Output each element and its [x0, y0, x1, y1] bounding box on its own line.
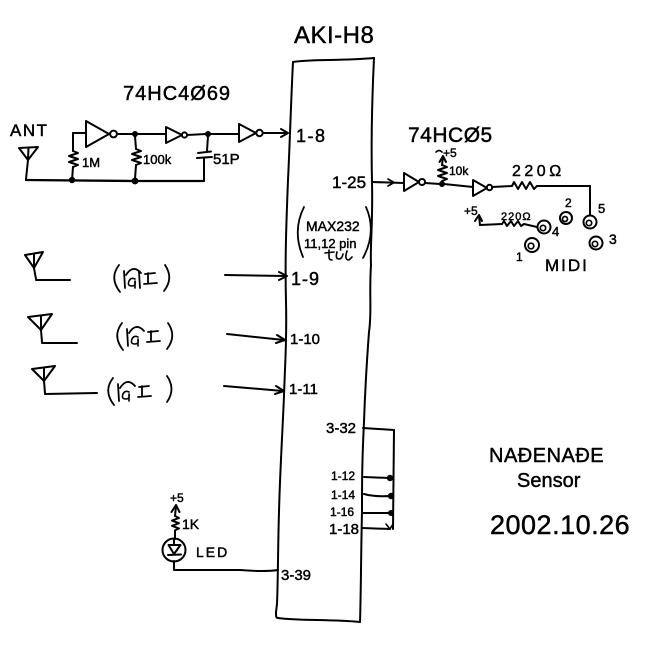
note ditto 2: [117, 323, 172, 350]
power arrow +5 led: [172, 505, 180, 516]
svg-text:1-16: 1-16: [330, 505, 354, 519]
svg-text:+5: +5: [443, 146, 457, 160]
wire inverter3 to pin 1-8: [263, 129, 288, 137]
junction dot 1-12: [387, 475, 393, 481]
resistor R2 100k: [132, 136, 141, 179]
inverter U2A: [404, 173, 425, 191]
svg-text:2002.10.26: 2002.10.26: [490, 510, 630, 540]
antenna A4: [32, 366, 97, 394]
junction node B: [205, 131, 211, 137]
resistor R6 1K: [172, 516, 179, 539]
junction dot 1-14: [388, 493, 394, 499]
MIDI jack pin 5: [584, 216, 597, 229]
svg-text:51P: 51P: [213, 151, 240, 168]
svg-text:1-12: 1-12: [331, 469, 355, 483]
wire to inverter3: [210, 133, 239, 135]
note ditto 1: [114, 265, 169, 292]
microcontroller U-AKI-H8 body: [276, 58, 374, 622]
svg-text:100k: 100k: [143, 152, 172, 167]
wire to MIDI pin 5: [589, 186, 591, 215]
wire inverter2 output: [187, 134, 206, 135]
label +5 pullup: [436, 146, 457, 160]
inverter U1C: [239, 124, 263, 142]
LED D1: [163, 539, 186, 562]
wire stub 1-14: [364, 494, 390, 496]
wire pin 1-25 to inverter4: [372, 179, 404, 186]
svg-text:LED: LED: [196, 544, 229, 560]
wire LED to 3-39: [174, 561, 278, 571]
svg-text:10k: 10k: [449, 164, 469, 178]
wire arrow to 1-9: [225, 272, 287, 280]
svg-text:74HCØ5: 74HCØ5: [408, 124, 493, 147]
svg-text:1-18: 1-18: [329, 521, 359, 538]
junction rail dot 2: [132, 178, 139, 185]
svg-text:11,12 pin: 11,12 pin: [304, 236, 357, 251]
junction dot 1-16: [388, 510, 394, 516]
svg-text:4: 4: [552, 224, 559, 239]
svg-text:1-11: 1-11: [289, 381, 318, 398]
svg-text:Sensor: Sensor: [517, 470, 581, 492]
svg-text:220Ω: 220Ω: [512, 163, 565, 180]
svg-text:3-39: 3-39: [281, 567, 311, 584]
inverter U1B: [166, 127, 187, 143]
svg-text:1-9: 1-9: [291, 269, 320, 289]
svg-text:1: 1: [516, 250, 523, 264]
svg-text:+5: +5: [170, 491, 184, 505]
power arrow +5 midi: [475, 215, 482, 225]
svg-text:AKI-H8: AKI-H8: [294, 22, 374, 49]
wire 3-32 to bus: [363, 428, 394, 430]
MIDI jack pin 1: [525, 238, 539, 252]
svg-text:1-10: 1-10: [290, 331, 320, 348]
svg-text:ANT: ANT: [10, 121, 49, 140]
antenna A2: [25, 252, 70, 280]
inverter U1A: [86, 121, 117, 147]
resistor R4 220 ohm: [492, 182, 590, 189]
svg-text:MAX232: MAX232: [306, 218, 360, 234]
wire to inverter5: [444, 184, 473, 187]
svg-text:3: 3: [609, 231, 617, 247]
svg-text:+5: +5: [464, 204, 478, 218]
svg-text:5: 5: [598, 201, 605, 216]
note ditto 3: [108, 376, 171, 405]
wire stub 1-18: [362, 524, 393, 529]
wire arrow to 1-10: [227, 334, 285, 343]
svg-text:1-8: 1-8: [296, 126, 327, 146]
wire inverter1 input: [73, 132, 86, 134]
junction rail dot 1: [69, 177, 75, 183]
junction node C: [439, 181, 445, 187]
capacitor C1 51P: [197, 136, 212, 180]
svg-text:74HC4Ø69: 74HC4Ø69: [123, 83, 231, 105]
antenna A3: [28, 314, 77, 343]
svg-text:1M: 1M: [82, 155, 100, 170]
wire to inverter2: [137, 133, 166, 135]
wire stub 1-16: [363, 512, 390, 514]
svg-text:220Ω: 220Ω: [501, 211, 532, 223]
svg-text:1K: 1K: [182, 516, 200, 532]
svg-text:1-14: 1-14: [331, 488, 355, 502]
wire inverter1 output: [117, 133, 133, 135]
antenna ANT: [19, 147, 38, 179]
wire stub 1-12: [364, 477, 389, 478]
wire inverter4 output: [425, 183, 440, 184]
svg-text:MIDI: MIDI: [545, 256, 589, 275]
wire arrow to 1-11: [224, 386, 284, 394]
MIDI jack pin 2: [560, 212, 572, 224]
resistor R1 1M: [69, 133, 78, 180]
svg-text:1-25: 1-25: [332, 173, 366, 192]
MIDI jack pin 3: [590, 237, 603, 250]
svg-text:2: 2: [565, 196, 572, 210]
MIDI jack pin 4: [538, 221, 551, 234]
svg-text:3-32: 3-32: [326, 420, 356, 437]
note MAX232 11,12 pin: [298, 207, 371, 260]
inverter U2B: [473, 180, 492, 196]
junction node A: [132, 131, 138, 137]
resistor R3 10k pullup: [438, 156, 447, 181]
svg-text:NAĐENAĐE: NAĐENAĐE: [489, 445, 604, 467]
wire bus vertical: [393, 430, 394, 529]
wire common rail: [26, 180, 204, 181]
resistor R5 220 ohm midi: [480, 221, 537, 227]
